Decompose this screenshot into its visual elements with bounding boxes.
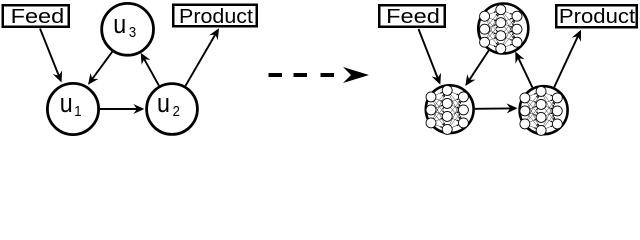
arrowhead u2 to Product bbox=[209, 28, 219, 40]
node u3 (left diagram) bbox=[102, 3, 154, 55]
node bottom-left circle (right diagram) bbox=[426, 85, 474, 133]
wire u3 to u1 bbox=[92, 51, 113, 79]
node Feed (left diagram) bbox=[3, 5, 69, 27]
arrowhead u2 to u3 bbox=[141, 53, 151, 65]
arrowhead bottom-right net node to top net node bbox=[515, 52, 524, 64]
wire u2 to u3 bbox=[144, 58, 159, 85]
node Product (left diagram) bbox=[173, 5, 257, 27]
neural-net icon inside top circle bbox=[480, 5, 522, 54]
arrowhead top net node to bottom-left net node bbox=[465, 74, 475, 86]
arrowhead Feed to u1 bbox=[53, 70, 62, 82]
dashed transformation arrow bbox=[269, 67, 370, 83]
node top circle (right diagram) bbox=[478, 4, 528, 54]
svg-text:Product: Product bbox=[559, 6, 635, 28]
arrowhead Feed to bottom-left net node bbox=[432, 73, 441, 85]
wire bottom-left net node to bottom-right net node bbox=[475, 107, 512, 109]
arrowhead u3 to u1 bbox=[88, 73, 99, 85]
arrowhead bottom-right net node to Product bbox=[572, 30, 581, 42]
arrowhead u1 to u2 bbox=[133, 104, 144, 114]
wire u2 to Product bbox=[186, 34, 216, 86]
node u1 (left diagram) bbox=[47, 83, 98, 134]
wire Feed to u1 bbox=[40, 29, 59, 77]
node bottom-right circle (right diagram) bbox=[520, 86, 568, 134]
neural-net icon inside bottom-right circle bbox=[520, 86, 562, 135]
wire top net node to bottom-left net node bbox=[469, 50, 489, 80]
svg-text:Feed: Feed bbox=[386, 5, 440, 28]
neural-net icon inside bottom-left circle bbox=[426, 85, 468, 134]
wire bottom-right net node to Product bbox=[554, 35, 578, 87]
node Product (right diagram) bbox=[556, 5, 637, 27]
node u2 (left diagram) bbox=[147, 84, 198, 135]
arrowhead bottom-left net node to bottom-right net node bbox=[507, 103, 518, 113]
wire bottom-right net node to top net node bbox=[518, 57, 532, 87]
node Feed (right diagram) bbox=[379, 5, 445, 27]
svg-text:Product: Product bbox=[179, 6, 253, 28]
wire Feed to bottom-left net node bbox=[419, 29, 439, 79]
svg-text:Feed: Feed bbox=[11, 5, 65, 28]
wire u1 to u2 bbox=[100, 108, 138, 110]
